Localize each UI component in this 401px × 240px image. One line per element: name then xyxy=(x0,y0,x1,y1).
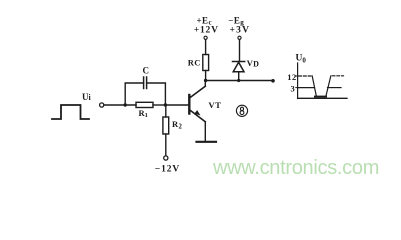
label -Eg xyxy=(228,16,244,27)
svg-text:R2: R2 xyxy=(172,119,183,130)
svg-text:R1: R1 xyxy=(139,108,148,119)
ground xyxy=(197,141,217,143)
label 3 xyxy=(291,83,295,93)
svg-text:VT: VT xyxy=(208,100,221,110)
wire C branch right leg xyxy=(147,83,166,105)
svg-text:12: 12 xyxy=(287,72,297,82)
label C xyxy=(143,66,150,76)
wire R1 to base node xyxy=(153,104,165,106)
node left junction xyxy=(124,103,127,106)
node diode junction xyxy=(237,79,240,82)
terminal +Ec xyxy=(204,36,207,39)
watermark www.cntronics.com xyxy=(213,157,379,180)
circled 8 xyxy=(236,105,247,116)
wire input to left node xyxy=(104,104,136,106)
label Ui xyxy=(82,92,92,102)
waveform rising edge xyxy=(326,76,331,97)
label R1 xyxy=(139,108,148,119)
wire base node down to R2 xyxy=(165,105,167,117)
label R2 xyxy=(172,119,183,130)
capacitor C xyxy=(144,77,147,89)
waveform low level xyxy=(315,96,326,98)
resistor R1 xyxy=(136,102,153,107)
emitter arrow xyxy=(194,110,200,115)
wire base node to transistor base xyxy=(165,104,188,106)
label 12 xyxy=(287,72,297,82)
tick 12 xyxy=(296,75,299,77)
wire +Ec to RC xyxy=(205,40,207,55)
input terminal xyxy=(100,103,104,107)
wire collector node to output terminal xyxy=(206,80,271,82)
wire collector xyxy=(204,81,206,87)
diode VD xyxy=(233,62,245,72)
svg-text:+12V: +12V xyxy=(194,26,219,36)
waveform x axis xyxy=(298,97,347,99)
terminal -12V xyxy=(164,156,168,160)
terminal -Eg xyxy=(238,36,241,39)
tick 3 xyxy=(296,87,299,89)
wire emitter down xyxy=(204,122,206,141)
label U0 xyxy=(296,53,307,64)
label VD xyxy=(247,58,260,69)
node base junction xyxy=(164,103,167,106)
svg-text:+3V: +3V xyxy=(230,26,251,36)
svg-text:Ui: Ui xyxy=(82,92,92,102)
wire R2 to -12V terminal xyxy=(165,134,167,156)
label VT xyxy=(208,100,221,110)
label +12V xyxy=(194,26,219,36)
wire RC to collector node xyxy=(205,71,207,81)
transistor VT xyxy=(189,86,205,122)
waveform dashed 12 level right xyxy=(332,75,343,77)
resistor RC xyxy=(203,55,209,71)
waveform dashed 12 level left xyxy=(299,75,312,77)
label -12V xyxy=(155,164,180,174)
node collector junction xyxy=(204,79,207,82)
waveform falling edge xyxy=(312,76,316,96)
waveform 3 level right xyxy=(328,87,342,89)
svg-text:RC: RC xyxy=(188,57,201,67)
label +Ec xyxy=(197,16,212,27)
label +3V xyxy=(230,26,251,36)
svg-text:−12V: −12V xyxy=(155,164,180,174)
wire -Eg to diode xyxy=(239,40,241,62)
svg-text:C: C xyxy=(143,66,150,76)
input pulse waveform symbol xyxy=(52,105,89,119)
resistor R2 xyxy=(163,117,169,134)
waveform 3 level left xyxy=(298,87,314,89)
wire diode to output wire xyxy=(238,72,240,81)
svg-text:3: 3 xyxy=(291,83,295,93)
waveform y axis xyxy=(297,63,299,99)
svg-text:VD: VD xyxy=(247,58,260,69)
output terminal xyxy=(271,79,275,83)
wire C branch left leg xyxy=(125,83,143,105)
label RC xyxy=(188,57,201,67)
